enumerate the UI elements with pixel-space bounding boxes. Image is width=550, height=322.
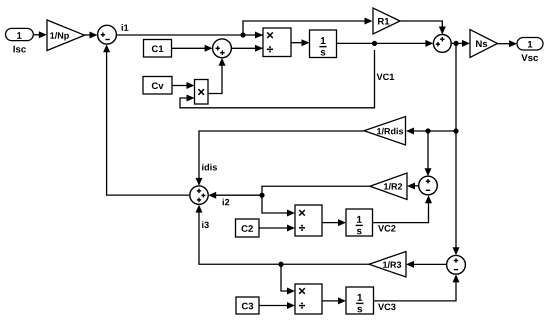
node VC1 junction	[372, 41, 377, 46]
wire i1: S1 to product top input	[116, 32, 263, 39]
wire Cv to multiplier	[172, 82, 195, 89]
wire 1/Rdis output to sum S6 (idis)	[196, 131, 365, 186]
label i1	[122, 24, 129, 31]
wire down to sum S4 top	[425, 131, 432, 176]
input port 1 (Isc)	[6, 28, 34, 40]
wire integrator to sum S3	[337, 40, 434, 47]
wire C2 to D3	[259, 225, 295, 232]
sum S4	[419, 176, 438, 195]
wire S2 to product bottom input	[231, 45, 263, 52]
label i3	[202, 221, 209, 228]
wire S6 output feedback to S1	[103, 44, 190, 195]
block Cv	[143, 77, 172, 95]
wire S3 junction down to sum S5	[453, 43, 460, 255]
wire VC1 feedback to multiplier	[180, 50, 375, 108]
node Rdis tap junction	[453, 128, 458, 133]
product/divide D1	[263, 28, 291, 57]
label VC2	[378, 225, 395, 232]
node i3 junction	[278, 262, 283, 267]
label VC3	[378, 304, 396, 311]
node S3 output junction	[453, 41, 458, 46]
wire integrator 3 to S5 bottom (VC3)	[374, 274, 460, 301]
gain 1/R3	[369, 252, 406, 278]
wire C1 to sum S2	[172, 45, 213, 52]
wire to 1/Rdis input	[406, 128, 456, 135]
node i1 junction	[240, 32, 245, 37]
multiplier (Cv x VC1)	[195, 80, 209, 105]
node S4 tap junction	[425, 128, 430, 133]
product/divide D3	[295, 205, 322, 236]
gain R1	[373, 8, 400, 34]
gain Ns	[470, 30, 498, 58]
wire 1/R2 output to sum S6 (i2)	[208, 186, 370, 198]
wire Isc to 1/Np	[33, 31, 47, 38]
integrator 1/s (VC1)	[310, 30, 337, 58]
gain 1/Np	[47, 20, 85, 51]
gain 1/Rdis	[364, 117, 406, 146]
wire R1 to S3 top	[400, 21, 446, 35]
label Vsc	[521, 54, 538, 61]
label Isc	[13, 46, 25, 53]
block C3	[236, 297, 259, 314]
wire i2 branch to product D3	[262, 195, 295, 216]
gain 1/R2	[370, 173, 407, 200]
label idis	[202, 164, 217, 171]
wire i1 branch up to R1	[243, 18, 373, 36]
block C1	[144, 40, 172, 58]
node i2 junction	[259, 193, 264, 198]
integrator 1/s (VC3)	[346, 287, 374, 314]
integrator 1/s (VC2)	[346, 209, 373, 236]
wire Ns to output port	[498, 40, 518, 47]
wire C3 to D4	[259, 302, 295, 309]
wire i3 branch to product D4	[281, 264, 295, 294]
label i2	[223, 199, 230, 206]
wire S3 to Ns	[451, 40, 470, 47]
sum S6	[190, 186, 208, 204]
sum S3	[433, 35, 451, 53]
wire 1/Np to sum S1	[85, 32, 98, 39]
wire D3 to integrator 2	[322, 219, 346, 226]
sum S1	[98, 25, 117, 44]
block C2	[236, 219, 260, 237]
sum S5	[447, 255, 466, 274]
output port 1 (Vsc)	[517, 38, 543, 51]
wire D4 to integrator 3	[322, 297, 346, 304]
wire 1/R3 output to sum S6 (i3)	[196, 205, 370, 265]
wire S4 to 1/R2 input	[407, 183, 419, 190]
wire S5 to 1/R3 input	[406, 261, 447, 268]
wire D1 to integrator 1/s	[291, 39, 310, 46]
wire integrator 2 to S4 bottom (VC2)	[373, 195, 433, 222]
wire multiplier to S2 bottom	[208, 58, 226, 94]
label VC1	[377, 74, 395, 81]
sum S2	[213, 39, 232, 58]
product/divide D4	[295, 284, 322, 314]
